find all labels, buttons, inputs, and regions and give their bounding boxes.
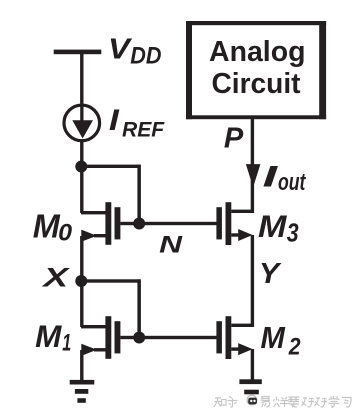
node X dot [75, 275, 87, 287]
transistor M0 [81, 202, 120, 245]
svg-text:I: I [263, 160, 279, 193]
char yi [262, 397, 270, 408]
svg-text:Circuit: Circuit [212, 68, 301, 100]
source lead [231, 347, 241, 350]
junction dot below IREF [75, 161, 87, 173]
gate bar [216, 207, 222, 239]
node N dot [133, 218, 145, 230]
wire M1 source to ground [80, 350, 83, 381]
char hu [228, 397, 238, 408]
svg-text:M: M [258, 208, 288, 244]
wire M2 source to ground [251, 349, 254, 381]
wire dot to N feed [81, 165, 140, 168]
char zhi [214, 398, 226, 407]
wire down to node N [137, 165, 141, 226]
svg-text:out: out [278, 169, 306, 196]
ground symbol right [239, 379, 261, 394]
M1 gate junction dot [133, 332, 145, 344]
wire current source to M0 drain [80, 141, 83, 213]
source arrow [81, 230, 97, 242]
svg-text:N: N [159, 232, 182, 259]
char hao 2 [315, 398, 328, 407]
source lead [231, 233, 241, 236]
svg-text:3: 3 [287, 220, 299, 248]
char yao [289, 397, 300, 407]
svg-text:P: P [224, 123, 244, 155]
channel bar [226, 202, 232, 245]
char yang [274, 397, 290, 408]
gate bar [115, 207, 121, 239]
Analog Circuit box [186, 21, 326, 119]
svg-text:1: 1 [62, 329, 71, 356]
gate bar [115, 321, 121, 353]
wire X to M1 drain [80, 281, 83, 327]
VDD supply bar [54, 50, 102, 55]
wire VDD to current source [80, 54, 83, 105]
transistor M1 [81, 316, 120, 359]
svg-text:Analog: Analog [209, 36, 306, 68]
svg-text:DD: DD [130, 43, 161, 70]
wire down to M1 gate [137, 279, 141, 339]
channel bar [105, 316, 111, 359]
source arrow [238, 229, 252, 241]
gate wire M0 to M3 [120, 222, 216, 225]
svg-text:M: M [33, 209, 61, 246]
gate bar [216, 321, 222, 353]
watermark: zhihu logo and user name (stroke approximations) [214, 395, 351, 407]
svg-text:Y: Y [259, 258, 282, 290]
char hao 1 [302, 398, 315, 407]
avatar face [248, 398, 257, 405]
svg-text:I: I [109, 104, 120, 137]
source arrow [81, 344, 97, 356]
char xi [342, 398, 351, 408]
char xue [329, 396, 340, 408]
svg-text:M: M [261, 322, 286, 355]
wire X to M1 gate feed [81, 279, 140, 282]
wire M0 source to X [80, 236, 83, 281]
drain lead [231, 324, 252, 327]
drain lead [81, 211, 106, 214]
at ring [247, 395, 257, 405]
ground symbol left [70, 380, 95, 403]
current source IREF [64, 105, 100, 141]
node P wire: box to M3 drain [251, 119, 254, 213]
svg-text:X: X [41, 262, 71, 293]
channel bar [226, 316, 232, 359]
source arrow [238, 343, 252, 355]
drain lead [81, 325, 106, 328]
channel bar [105, 202, 111, 245]
svg-text:2: 2 [288, 333, 301, 360]
drain lead [231, 210, 252, 213]
gate wire M1 to M2 [120, 336, 216, 339]
svg-text:REF: REF [122, 118, 165, 142]
svg-text:M: M [35, 319, 62, 354]
svg-text:0: 0 [58, 219, 72, 246]
transistor M2 [216, 316, 252, 359]
Iout arrow [246, 164, 261, 187]
transistor M3 [216, 202, 252, 245]
wire M3 source to M2 drain (node Y) [251, 235, 254, 327]
